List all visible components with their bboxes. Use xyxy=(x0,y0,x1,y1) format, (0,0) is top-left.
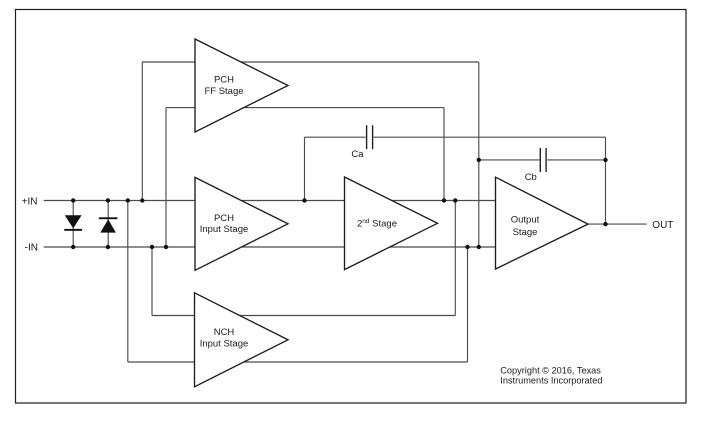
svg-text:OUT: OUT xyxy=(652,220,673,231)
svg-text:NCH: NCH xyxy=(214,327,235,338)
svg-text:Stage: Stage xyxy=(513,227,538,238)
wire Ca feedback top left segment xyxy=(305,136,366,138)
wire vertical FF lower to +IN rail junction xyxy=(443,108,445,201)
wire FF upper input horizontal xyxy=(142,61,479,63)
op-amp PCH Input Stage xyxy=(195,177,288,270)
svg-text:Copyright © 2016, Texas: Copyright © 2016, Texas xyxy=(500,365,601,375)
capacitor Cb plates xyxy=(540,148,546,172)
svg-text:Instruments Incorporated: Instruments Incorporated xyxy=(500,376,602,386)
op-amp 2nd Stage xyxy=(345,177,438,270)
wire Cb left segment xyxy=(479,159,540,161)
svg-text:-IN: -IN xyxy=(25,243,38,254)
wire vertical Ca left leg xyxy=(304,137,306,200)
wire vertical NCH upper to +IN rail junction xyxy=(454,201,456,316)
wire -IN rail xyxy=(44,246,496,248)
svg-text:Ca: Ca xyxy=(351,149,364,160)
svg-text:Cb: Cb xyxy=(525,172,537,183)
op-amp NCH Input Stage xyxy=(195,293,289,387)
wire Ca feedback top right segment xyxy=(374,136,606,138)
wire NCH lower input horizontal xyxy=(128,361,468,363)
svg-text:Input Stage: Input Stage xyxy=(200,339,249,350)
op-amp PCH FF Stage xyxy=(195,39,288,132)
wire FF lower input horizontal xyxy=(166,107,444,109)
wire vertical FF upper to -IN rail junction through Cb node xyxy=(478,62,480,247)
wire vertical +IN to NCH lower xyxy=(127,201,129,363)
wire vertical NCH lower to -IN rail junction xyxy=(467,247,469,362)
junction dots xyxy=(71,158,608,250)
wire vertical -IN to FF lower xyxy=(165,108,167,247)
diode D2 (anode on -IN, pointing up) xyxy=(99,217,118,232)
wire OUT line xyxy=(588,223,647,225)
svg-text:PCH: PCH xyxy=(214,74,234,85)
svg-text:Input Stage: Input Stage xyxy=(200,224,249,235)
svg-text:PCH: PCH xyxy=(214,213,234,224)
wire Cb right segment xyxy=(547,159,605,161)
capacitor Ca plates xyxy=(367,125,373,149)
wire vertical -IN to NCH upper xyxy=(151,247,153,316)
diode D1 (anode on +IN, pointing down) xyxy=(64,215,82,231)
svg-text:Output: Output xyxy=(511,215,540,226)
svg-text:+IN: +IN xyxy=(22,196,38,207)
wire diode D1 vertical xyxy=(72,201,74,248)
wire vertical +IN to FF upper xyxy=(141,62,143,201)
wire +IN rail xyxy=(44,200,496,202)
wire vertical output node xyxy=(605,137,607,224)
svg-text:FF Stage: FF Stage xyxy=(204,86,243,97)
op-amp Output Stage xyxy=(496,177,589,269)
wire diode D2 vertical xyxy=(107,201,109,248)
wire NCH upper input horizontal xyxy=(152,315,455,317)
